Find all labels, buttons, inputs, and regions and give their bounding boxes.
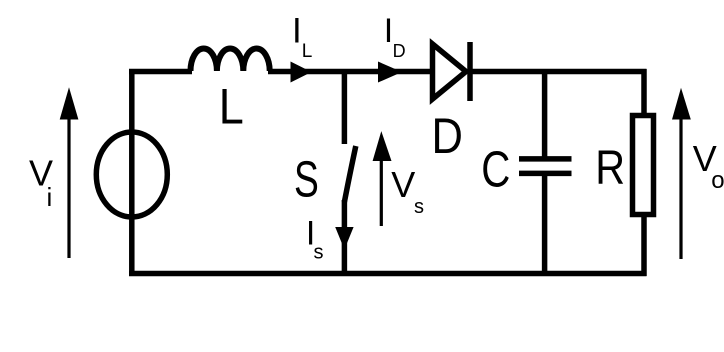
capacitor C bottom plate bbox=[519, 171, 572, 177]
capacitor C top lead bbox=[542, 69, 548, 159]
switch S lower wire bbox=[342, 200, 348, 274]
resistor R body bbox=[633, 116, 654, 215]
wire bottom bbox=[129, 271, 647, 277]
wire coil to diode bbox=[268, 69, 431, 75]
svg-text:L: L bbox=[302, 41, 313, 62]
svg-text:V: V bbox=[391, 164, 415, 205]
arrow Vs line bbox=[380, 157, 383, 226]
wire top left segment bbox=[129, 69, 192, 75]
svg-text:s: s bbox=[414, 196, 424, 218]
svg-text:R: R bbox=[595, 141, 625, 195]
voltage source Vi circle bbox=[96, 132, 167, 217]
arrowhead current IL bbox=[291, 62, 312, 83]
svg-text:D: D bbox=[432, 108, 463, 163]
arrow Vo line bbox=[679, 115, 682, 259]
wire right lower bbox=[641, 216, 647, 276]
wire left vertical bbox=[129, 69, 135, 276]
capacitor C bottom lead bbox=[542, 173, 548, 276]
switch S blade bbox=[344, 146, 355, 202]
svg-text:D: D bbox=[393, 41, 406, 61]
svg-text:L: L bbox=[219, 79, 244, 135]
arrow Vs head bbox=[373, 131, 392, 161]
arrow Vo head bbox=[672, 88, 691, 120]
svg-text:S: S bbox=[294, 152, 319, 208]
capacitor C top plate bbox=[519, 156, 572, 162]
wire right upper bbox=[641, 69, 647, 114]
svg-text:C: C bbox=[481, 140, 510, 198]
inductor L coil bbox=[190, 48, 269, 71]
switch S stub bbox=[342, 69, 348, 144]
svg-text:I: I bbox=[292, 11, 302, 50]
arrow Vi line bbox=[67, 115, 70, 258]
arrowhead switch current Is bbox=[335, 227, 353, 250]
svg-text:o: o bbox=[711, 167, 724, 194]
svg-text:i: i bbox=[47, 182, 53, 212]
diode D triangle bbox=[433, 44, 467, 99]
wire diode to top-right corner bbox=[469, 69, 647, 75]
diode D cathode bar bbox=[467, 42, 473, 101]
arrow Vi head bbox=[60, 87, 79, 119]
svg-text:s: s bbox=[314, 242, 324, 264]
arrowhead current ID bbox=[378, 62, 402, 83]
